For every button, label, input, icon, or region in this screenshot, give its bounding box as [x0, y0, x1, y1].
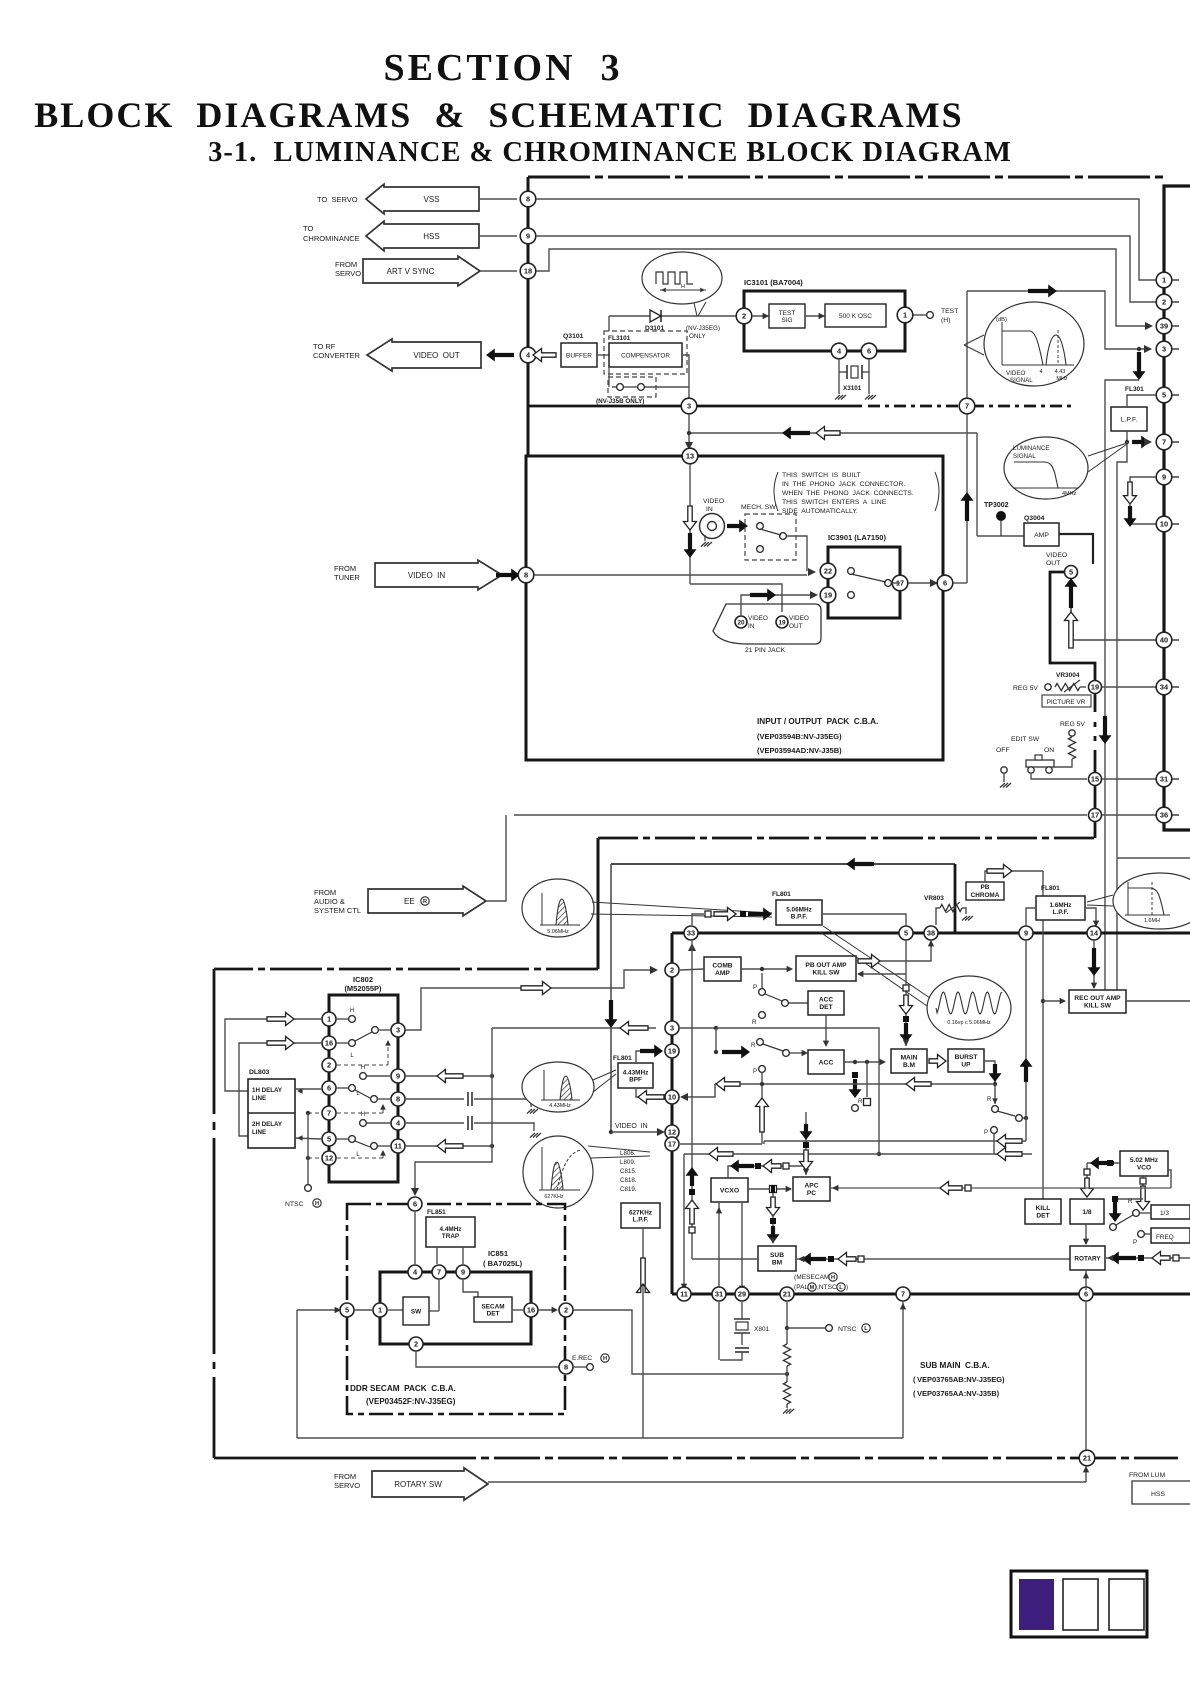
- wire pin 9 to secam det: [463, 1280, 478, 1297]
- svg-text:34: 34: [1160, 683, 1169, 692]
- svg-text:(H): (H): [941, 317, 950, 324]
- pin 5 of IC802: [322, 1132, 336, 1146]
- vertical from pin 13 with flow arrows: [689, 464, 691, 584]
- svg-text:500 K OSC: 500 K OSC: [839, 313, 872, 320]
- svg-text:C819.: C819.: [620, 1186, 637, 1193]
- svg-text:H: H: [315, 1201, 319, 1207]
- pin 12 of IC802: [322, 1151, 336, 1165]
- svg-text:SERVO: SERVO: [335, 269, 361, 278]
- purple legend plate: [1011, 1571, 1147, 1637]
- svg-text:KILL: KILL: [1036, 1205, 1051, 1212]
- svg-text:IC851: IC851: [488, 1249, 508, 1258]
- svg-text:M: M: [810, 1285, 815, 1291]
- pin 4 of IC851: [408, 1265, 422, 1279]
- svg-text:(VEP03594B:NV-J35EG): (VEP03594B:NV-J35EG): [757, 732, 842, 741]
- pin 22 of IC3901: [820, 563, 836, 579]
- wire branch to amp Q3004: [977, 535, 1024, 537]
- svg-text:VR803: VR803: [924, 895, 944, 902]
- P contact and vertical x=762: [759, 1066, 766, 1073]
- pin 4 on luminance frame: [520, 347, 536, 363]
- svg-text:H: H: [831, 1275, 835, 1281]
- wire vcxo top loop to apc top: [728, 1166, 806, 1178]
- outline square on second branch: [866, 1062, 868, 1097]
- distribution vertical x=492: [491, 1028, 493, 1146]
- P contact node to lower return wire: [991, 1127, 998, 1134]
- svg-text:NTSC: NTSC: [838, 1326, 857, 1333]
- wire pin6 down to IC851 pin 4: [414, 1212, 416, 1264]
- svg-text:(MESECAM: (MESECAM: [794, 1274, 830, 1281]
- bus pin 36: [1156, 807, 1172, 823]
- thick vertical x=955 into sub main top: [954, 864, 957, 933]
- svg-text:SECAM: SECAM: [481, 1303, 504, 1310]
- svg-text:TEST: TEST: [941, 308, 958, 315]
- divider 1/8 block: [1070, 1199, 1104, 1224]
- svg-text:( VEP03765AA:NV-J35B): ( VEP03765AA:NV-J35B): [913, 1389, 1000, 1398]
- pin 7 of IC802: [322, 1106, 336, 1120]
- pin 17 on sub main left edge: [665, 1137, 679, 1151]
- svg-text:H: H: [603, 1356, 607, 1362]
- wire pin2 to test sig: [752, 315, 769, 317]
- svg-text:8: 8: [524, 571, 528, 580]
- luminance section outer frame top edge: [528, 176, 1168, 179]
- flow arrow ART V SYNC from servo: [363, 256, 480, 286]
- svg-text:22: 22: [824, 567, 832, 576]
- svg-text:): ): [846, 1284, 848, 1291]
- svg-text:VIDEO: VIDEO: [748, 615, 768, 622]
- oscillator 5.02MHz VCO block: [1120, 1151, 1168, 1176]
- secam output wire to sub main pin 7: [296, 1310, 298, 1438]
- svg-text:FROM: FROM: [334, 1472, 356, 1481]
- svg-text:PB: PB: [981, 884, 990, 891]
- svg-text:UP: UP: [961, 1062, 971, 1069]
- outline arrow into pin 4: [533, 349, 556, 362]
- pin 5 on sub main top edge: [899, 926, 913, 940]
- wire distribution down to SECAM pack pin 6: [415, 1146, 492, 1194]
- bus pin 1: [1156, 272, 1172, 288]
- wire sub main pin 3 to distribution node: [492, 1027, 656, 1029]
- wire pin9 up to 1.6 LPF: [1026, 908, 1036, 925]
- svg-text:SYSTEM CTL: SYSTEM CTL: [314, 906, 361, 915]
- svg-text:TO RF: TO RF: [313, 342, 336, 351]
- wire pin19 to bus pin 34: [1102, 686, 1157, 688]
- ground under phono jack: [704, 535, 706, 541]
- capacitor under X801: [741, 1333, 743, 1345]
- svg-text:IN: IN: [706, 506, 713, 513]
- wire BPF top to pin 19 with solid arrow: [636, 1051, 640, 1063]
- R switch chain below acc output: [852, 1072, 858, 1078]
- svg-text:5: 5: [1069, 568, 1073, 577]
- svg-text:PB OUT AMP: PB OUT AMP: [805, 962, 847, 969]
- svg-text:FL851: FL851: [427, 1209, 446, 1216]
- ACC block: [808, 1050, 844, 1074]
- svg-text:FROM: FROM: [314, 888, 336, 897]
- wire pin33 up to FL801 5.06 BPF with arrows: [692, 914, 704, 925]
- svg-text:FREQ: FREQ: [1156, 1234, 1174, 1241]
- svg-text:PC: PC: [807, 1190, 816, 1197]
- pin 31 on sub main bottom edge: [712, 1287, 726, 1301]
- svg-text:14: 14: [1090, 929, 1099, 938]
- DDR SECAM PACK box dash-dot: [347, 1204, 565, 1414]
- wire pin17 to bus pin 36: [1102, 814, 1157, 816]
- KILL DET block: [1025, 1199, 1061, 1224]
- svg-text:FROM: FROM: [335, 260, 357, 269]
- wire pin 17 right: [680, 1143, 762, 1145]
- wire pin6 down to chroma bottom pin 21: [1085, 1302, 1087, 1450]
- svg-text:9: 9: [1024, 929, 1028, 938]
- pin 2 of IC802: [322, 1058, 336, 1072]
- pin 2 on sub main left edge: [665, 963, 679, 977]
- switch inside IC3901: [848, 568, 855, 575]
- wire buffer to compensator: [597, 354, 609, 356]
- INPUT/OUTPUT PACK C.B.A. box: [526, 456, 943, 760]
- svg-text:VIDEO IN: VIDEO IN: [615, 1123, 648, 1130]
- svg-text:4MHz: 4MHz: [1062, 491, 1077, 497]
- svg-text:B.M: B.M: [903, 1062, 916, 1069]
- svg-text:19: 19: [1091, 683, 1099, 692]
- test signal generator block: [769, 304, 805, 328]
- pin 2 bottom of IC851: [409, 1337, 423, 1351]
- wire BPF506 to pin 5: [822, 914, 906, 925]
- svg-text:(M52055P): (M52055P): [344, 984, 382, 993]
- wire 627 LPF down to secam line: [642, 1228, 644, 1438]
- luminance frame left edge: [527, 177, 530, 456]
- svg-text:DDR SECAM PACK C.B.A.: DDR SECAM PACK C.B.A.: [350, 1384, 456, 1393]
- svg-text:9: 9: [526, 232, 530, 241]
- wire amp to video out node 5: [1059, 534, 1093, 564]
- svg-text:R: R: [423, 899, 427, 905]
- wire pin 3 branch to ACC switch: [680, 1027, 716, 1029]
- svg-text:2: 2: [414, 1340, 418, 1349]
- solid arrow jack to mech switch: [727, 520, 748, 533]
- svg-text:1: 1: [378, 1306, 382, 1315]
- filter 627KHz LPF: [621, 1203, 660, 1228]
- svg-text:16: 16: [527, 1306, 535, 1315]
- svg-text:29: 29: [738, 1290, 746, 1299]
- svg-text:38: 38: [927, 929, 935, 938]
- svg-text:OUT: OUT: [789, 623, 803, 630]
- pin 11 of IC802: [391, 1139, 405, 1153]
- compensator block: [609, 343, 682, 367]
- svg-text:CHROMA: CHROMA: [971, 892, 1000, 899]
- svg-text:IC3901 (LA7150): IC3901 (LA7150): [828, 533, 886, 542]
- wire pin 11 long return y=1154: [684, 1153, 1032, 1155]
- svg-text:ACC: ACC: [819, 997, 834, 1004]
- vertical apc down to sub bm: [772, 1193, 774, 1243]
- SUB BM block: [758, 1246, 796, 1271]
- wire pin1 to test point: [913, 314, 926, 316]
- oscillator 500K OSC block: [825, 304, 886, 327]
- svg-text:R: R: [1128, 1198, 1133, 1205]
- wire pin 21 down with resistor chain: [786, 1302, 788, 1344]
- wire 1.6 LPF to pin 14: [1085, 908, 1096, 925]
- svg-text:BLOCK DIAGRAMS & SCHEMATIC: BLOCK DIAGRAMS & SCHEMATIC DIAGRAMS: [34, 95, 963, 135]
- svg-text:OFF: OFF: [996, 747, 1010, 754]
- svg-text:5: 5: [327, 1135, 331, 1144]
- svg-text:H: H: [361, 1065, 365, 1071]
- ground under X3101 left: [835, 395, 840, 400]
- svg-text:MAIN: MAIN: [901, 1055, 918, 1062]
- svg-text:TP3002: TP3002: [984, 502, 1009, 509]
- svg-text:1.6MHz: 1.6MHz: [1049, 902, 1071, 909]
- wire compensator output down to pin 3: [682, 355, 689, 398]
- svg-text:5.02 MHz: 5.02 MHz: [1130, 1157, 1159, 1164]
- svg-text:1/8: 1/8: [1082, 1209, 1091, 1216]
- pin 11 on sub main bottom edge: [677, 1287, 691, 1301]
- svg-text:FL301: FL301: [1125, 386, 1144, 393]
- vertical from PB chroma to rec out and kill det: [1042, 871, 1044, 1199]
- svg-text:KILL SW: KILL SW: [1084, 1003, 1112, 1010]
- divider 1/3x block cut at edge: [1151, 1205, 1190, 1219]
- svg-text:31: 31: [715, 1290, 723, 1299]
- vco left output chain: [1087, 1162, 1120, 1164]
- svg-text:21: 21: [1083, 1454, 1091, 1463]
- bus pin 40: [1156, 632, 1172, 648]
- pin 5 on secam pack left edge: [340, 1303, 354, 1317]
- svg-text:SW: SW: [411, 1308, 422, 1315]
- svg-text:DET: DET: [1036, 1213, 1049, 1220]
- pin 16 of IC851: [524, 1303, 538, 1317]
- svg-text:R: R: [751, 1042, 756, 1049]
- svg-text:P: P: [753, 984, 757, 991]
- pin 6 on sub main bottom edge: [1079, 1287, 1093, 1301]
- pin 3 on sub main left edge: [665, 1021, 679, 1035]
- pb out amp output up to pin 38: [856, 941, 931, 961]
- burst up output chain down: [984, 1061, 995, 1104]
- wire pin8 to IC3901 pin 22: [534, 574, 807, 576]
- svg-text:REG 5V: REG 5V: [1060, 721, 1085, 728]
- capacitor on pin 4: [406, 1122, 464, 1124]
- svg-text:R: R: [987, 1096, 992, 1103]
- svg-text:FL3101: FL3101: [608, 335, 631, 342]
- svg-text:9: 9: [396, 1072, 400, 1081]
- svg-text:TO SERVO: TO SERVO: [317, 195, 358, 204]
- wire vco to apc pc: [830, 1187, 1171, 1189]
- svg-text:5: 5: [904, 929, 908, 938]
- svg-text:L.P.F.: L.P.F.: [633, 1216, 649, 1223]
- SECAM DET block: [474, 1297, 512, 1322]
- return wire left with outline arrows y=1084: [715, 1083, 995, 1085]
- pin 3 of IC802: [391, 1023, 405, 1037]
- svg-text:7: 7: [965, 402, 969, 411]
- pin 7 of IC851: [432, 1265, 446, 1279]
- svg-text:SUB: SUB: [770, 1252, 784, 1259]
- chroma outer box top edge dash-dot: [214, 968, 598, 971]
- svg-text:2: 2: [742, 312, 746, 321]
- svg-text:L806.: L806.: [620, 1150, 636, 1157]
- svg-text:33: 33: [687, 929, 695, 938]
- waveform balloon H pulse callout: [642, 252, 722, 304]
- FREQ block cut at edge: [1151, 1228, 1190, 1243]
- bus pin 31: [1156, 771, 1172, 787]
- wire edit switch to pin 15: [1031, 774, 1087, 779]
- wire LPF top to bus pin 5: [1127, 395, 1156, 407]
- thick video out routing wire down to inner box edge: [1050, 572, 1095, 712]
- left arrows on crossover wire y=433: [689, 432, 977, 434]
- svg-text:KILL SW: KILL SW: [813, 970, 841, 977]
- svg-text:LUMINANCE: LUMINANCE: [1013, 445, 1049, 452]
- long vertical node wire x=967: [966, 291, 968, 398]
- svg-text:H: H: [681, 284, 685, 290]
- svg-text:13: 13: [686, 452, 694, 461]
- svg-text:7: 7: [901, 1290, 905, 1299]
- pin 4 of IC802: [391, 1116, 405, 1130]
- balloon VIDEO SIGNAL spectrum: [984, 302, 1084, 386]
- sub bm right input chain: [796, 1258, 1070, 1260]
- balloon LUMINANCE SIGNAL: [1004, 437, 1088, 499]
- R contact below: [759, 1012, 766, 1019]
- svg-text:TRAP: TRAP: [442, 1233, 460, 1240]
- pin 29 on sub main bottom edge: [735, 1287, 749, 1301]
- wire LPF bottom to bus pin 7: [1126, 431, 1128, 442]
- bus pin 10: [1156, 516, 1172, 532]
- svg-text:VR3004: VR3004: [1056, 672, 1080, 679]
- vco right output down to APC wire: [1168, 1170, 1171, 1188]
- svg-text:2: 2: [1162, 298, 1166, 307]
- bus pin 5: [1156, 387, 1172, 403]
- BURST UP block: [948, 1049, 984, 1072]
- svg-text:(PAL: (PAL: [794, 1284, 809, 1291]
- svg-text:627KHz: 627KHz: [629, 1209, 652, 1216]
- svg-text:2: 2: [327, 1061, 331, 1070]
- solid down arrow on x611: [605, 1000, 618, 1028]
- sub bm left feed from pin 33 vertical: [691, 941, 693, 1259]
- svg-text:VIDEO: VIDEO: [703, 498, 724, 505]
- svg-text:(VEP03594AD:NV-J35B): (VEP03594AD:NV-J35B): [757, 746, 842, 755]
- wire HSS to pin 9: [479, 235, 517, 237]
- wire mech switch to IC3901 pin 22: [787, 536, 807, 571]
- wire scart pin20 to IC3901 pin 19 with solid arrow: [741, 595, 816, 616]
- pin 38 on sub main top edge: [924, 926, 938, 940]
- svg-text:VCXO: VCXO: [720, 1187, 739, 1194]
- svg-text:BPF: BPF: [629, 1076, 642, 1083]
- terminal NTSC L: [787, 1327, 825, 1329]
- svg-text:8: 8: [564, 1363, 568, 1372]
- wire video out chain to bus pin 40: [1071, 600, 1156, 640]
- second long vertical x=1117: [1117, 442, 1127, 990]
- svg-text:1H DELAY: 1H DELAY: [252, 1087, 283, 1094]
- svg-text:17: 17: [1091, 811, 1099, 820]
- ground under resistor chain: [783, 1409, 788, 1414]
- svg-text:NTSC: NTSC: [285, 1201, 304, 1208]
- wire EE up to pin17 row: [486, 815, 506, 901]
- svg-text:10: 10: [1160, 520, 1168, 529]
- svg-text:1: 1: [1162, 276, 1166, 285]
- wire EE node to pin 17 row: [514, 814, 1087, 816]
- svg-text:MECH. SW: MECH. SW: [741, 504, 776, 511]
- node NTSC H control: [308, 1112, 321, 1114]
- balloon 5.06MHz spectrum: [522, 879, 594, 937]
- pin 12 on sub main left edge: [665, 1125, 679, 1139]
- svg-text:APC: APC: [805, 1183, 819, 1190]
- wire pin2 to comb amp: [680, 969, 704, 970]
- vertical pin 11 feed: [683, 1154, 685, 1288]
- pin 21 on sub main bottom edge: [780, 1287, 794, 1301]
- vco bottom chain to R switch: [1142, 1176, 1144, 1198]
- pin 19 on sub main left edge: [665, 1044, 679, 1058]
- svg-text:FL801: FL801: [1041, 885, 1060, 892]
- ROTARY block: [1070, 1246, 1105, 1270]
- pin 6 of IC3101: [861, 343, 877, 359]
- solid up arrow on x967: [961, 492, 974, 521]
- 21 pin jack scart connector outline: [713, 604, 821, 644]
- svg-text:SIGNAL: SIGNAL: [1013, 453, 1036, 460]
- wire pin1 loop to delay line: [225, 1019, 321, 1091]
- wire PB chroma output: [985, 871, 1043, 882]
- wire IC802 pin11 from distribution node: [406, 1145, 492, 1147]
- svg-text:7: 7: [437, 1268, 441, 1277]
- svg-text:VIDEO: VIDEO: [789, 615, 809, 622]
- wire switch row to arrow row y=1141: [764, 1140, 1026, 1142]
- long vertical video in wire x=611: [610, 864, 612, 1132]
- svg-text:9: 9: [461, 1268, 465, 1277]
- resistor on edit switch: [1068, 737, 1075, 759]
- wire sw up to pin 7: [438, 1280, 440, 1311]
- wire pin3 continues to x879 vertical: [716, 1028, 879, 1154]
- pin 8 on luminance frame: [520, 191, 536, 207]
- balloon 4.43MHz spectrum: [522, 1062, 594, 1112]
- solid down arrow on long vertical x1105: [1099, 716, 1112, 744]
- wire vcxo bottom to pin 31: [718, 1202, 720, 1290]
- flow arrow VIDEO IN from tuner: [375, 560, 502, 590]
- svg-text:LINE: LINE: [252, 1095, 266, 1102]
- svg-text:12: 12: [325, 1154, 333, 1163]
- branch of x1117 to page edge: [1117, 857, 1190, 859]
- svg-text:9: 9: [1162, 473, 1166, 482]
- svg-text:ROTARY SW: ROTARY SW: [394, 1480, 442, 1489]
- svg-text:12: 12: [668, 1128, 676, 1137]
- svg-text:6: 6: [327, 1084, 331, 1093]
- svg-text:BUFFER: BUFFER: [566, 352, 592, 359]
- svg-text:SUB MAIN C.B.A.: SUB MAIN C.B.A.: [920, 1361, 990, 1370]
- svg-text:4.43: 4.43: [1055, 369, 1066, 375]
- pin 6 on pack right edge: [937, 575, 953, 591]
- svg-text:DET: DET: [819, 1004, 832, 1011]
- wire vcxo bottom right to pin 29: [741, 1202, 743, 1290]
- label PICTURE VR: [1042, 695, 1091, 707]
- pin 8 of IC802: [391, 1092, 405, 1106]
- wire test sig to osc: [805, 315, 825, 317]
- svg-text:AMP: AMP: [1034, 532, 1049, 539]
- resistor 2 on pin21 chain: [783, 1382, 790, 1404]
- pin 17 of IC3901: [892, 575, 908, 591]
- svg-text:31: 31: [1160, 775, 1168, 784]
- pin 19 on inner box right edge: [1089, 681, 1102, 694]
- svg-text:(NV-J35EG): (NV-J35EG): [686, 325, 720, 332]
- svg-text:19: 19: [778, 619, 786, 626]
- wire video in to pin 12: [609, 1130, 613, 1134]
- solid right arrow on 291 wire: [1028, 285, 1057, 298]
- pin 19 of IC3901: [820, 587, 836, 603]
- pin 16 of IC802: [322, 1036, 336, 1050]
- svg-text:10: 10: [668, 1093, 676, 1102]
- svg-text:C815.: C815.: [620, 1168, 637, 1175]
- svg-text:EDIT SW: EDIT SW: [1011, 736, 1040, 743]
- svg-text:PICTURE VR: PICTURE VR: [1047, 699, 1086, 706]
- flow arrow VIDEO OUT to RF converter: [367, 339, 481, 371]
- wire pin15 to bus pin 31: [1102, 778, 1157, 780]
- svg-text:IC802: IC802: [353, 975, 373, 984]
- wire pin17 to pack pin 6: [908, 582, 937, 584]
- svg-text:5.06MHz: 5.06MHz: [547, 929, 569, 935]
- svg-text:ROTARY: ROTARY: [1074, 1255, 1101, 1262]
- diode D3101: [650, 310, 661, 322]
- solid left arrow on chroma video line: [846, 858, 874, 871]
- svg-text:11: 11: [680, 1290, 688, 1299]
- svg-text:MHz: MHz: [1056, 376, 1068, 382]
- svg-text:AUDIO &: AUDIO &: [314, 897, 345, 906]
- svg-text:AMP: AMP: [715, 970, 730, 977]
- wire pin14 down to rec out amp: [1093, 941, 1095, 988]
